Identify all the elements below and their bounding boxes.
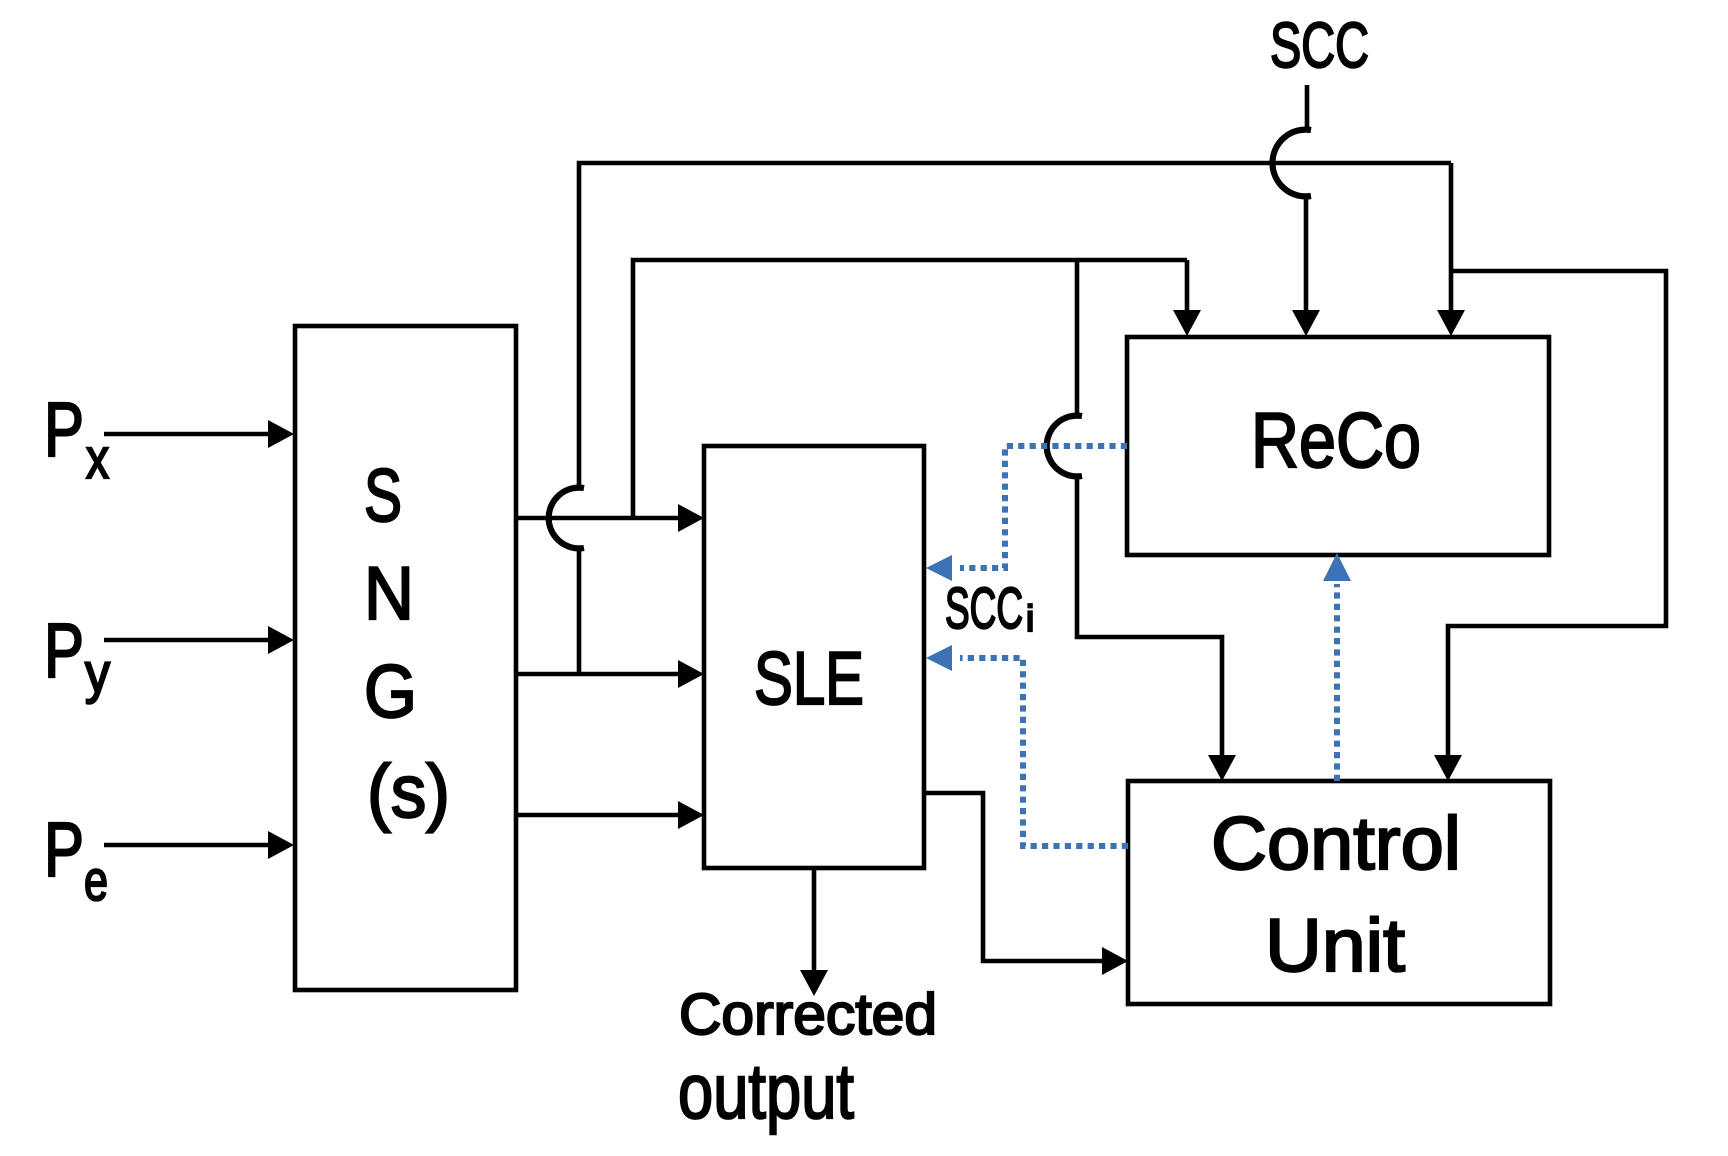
svg-text:output: output <box>678 1047 854 1135</box>
svg-text:i: i <box>1026 598 1034 639</box>
svg-text:SLE: SLE <box>754 636 864 720</box>
svg-text:y: y <box>85 641 110 704</box>
wire SNG out3 to SLE in3 <box>516 813 680 818</box>
svg-text:N: N <box>364 551 414 635</box>
wire net A branch to Control Unit <box>1075 260 1080 414</box>
svg-text:SCC: SCC <box>945 576 1023 641</box>
svg-text:Unit: Unit <box>1265 903 1405 987</box>
wire net B riser (branch from out2, hop over out1) <box>577 549 582 674</box>
block SLE <box>704 446 924 868</box>
dotted wire SCCi from ReCo to SLE <box>960 446 1127 568</box>
svg-text:e: e <box>84 849 108 913</box>
block SNG <box>295 326 516 990</box>
svg-text:(s): (s) <box>367 749 450 833</box>
svg-text:SCC: SCC <box>1270 9 1369 81</box>
block ReCo <box>1127 337 1549 555</box>
wire SNG out1 to SLE in1 <box>516 516 680 521</box>
wire SNG out2 to SLE in2 <box>516 672 680 677</box>
wire net B branch to Control Unit (right loop) <box>1448 271 1666 757</box>
dotted wire from Control Unit to SLE <box>960 658 1128 846</box>
wire Px input arrow <box>104 432 270 437</box>
wire net A riser to ReCo (branch from out1) <box>633 260 1187 518</box>
wire Pe input arrow <box>104 843 270 848</box>
svg-text:S: S <box>364 453 402 537</box>
svg-text:P: P <box>44 387 84 473</box>
hop over net B top wire <box>1272 130 1311 197</box>
wire SCC to ReCo <box>1305 85 1310 129</box>
hop over SCCi dotted line <box>1047 416 1082 477</box>
wire Py input arrow <box>104 638 270 643</box>
svg-text:x: x <box>86 427 109 491</box>
hop over out1 wire <box>549 488 584 549</box>
svg-text:Control: Control <box>1211 801 1461 885</box>
block Control Unit <box>1128 781 1550 1004</box>
svg-text:ReCo: ReCo <box>1251 396 1421 484</box>
dotted wire from Control Unit up to ReCo <box>1334 584 1340 781</box>
svg-text:Corrected: Corrected <box>679 982 937 1047</box>
svg-text:G: G <box>364 649 417 733</box>
wire SLE bottom output <box>812 868 817 972</box>
svg-text:P: P <box>44 608 84 694</box>
svg-text:P: P <box>44 807 84 893</box>
wire SLE right output to Control Unit <box>924 793 1104 961</box>
